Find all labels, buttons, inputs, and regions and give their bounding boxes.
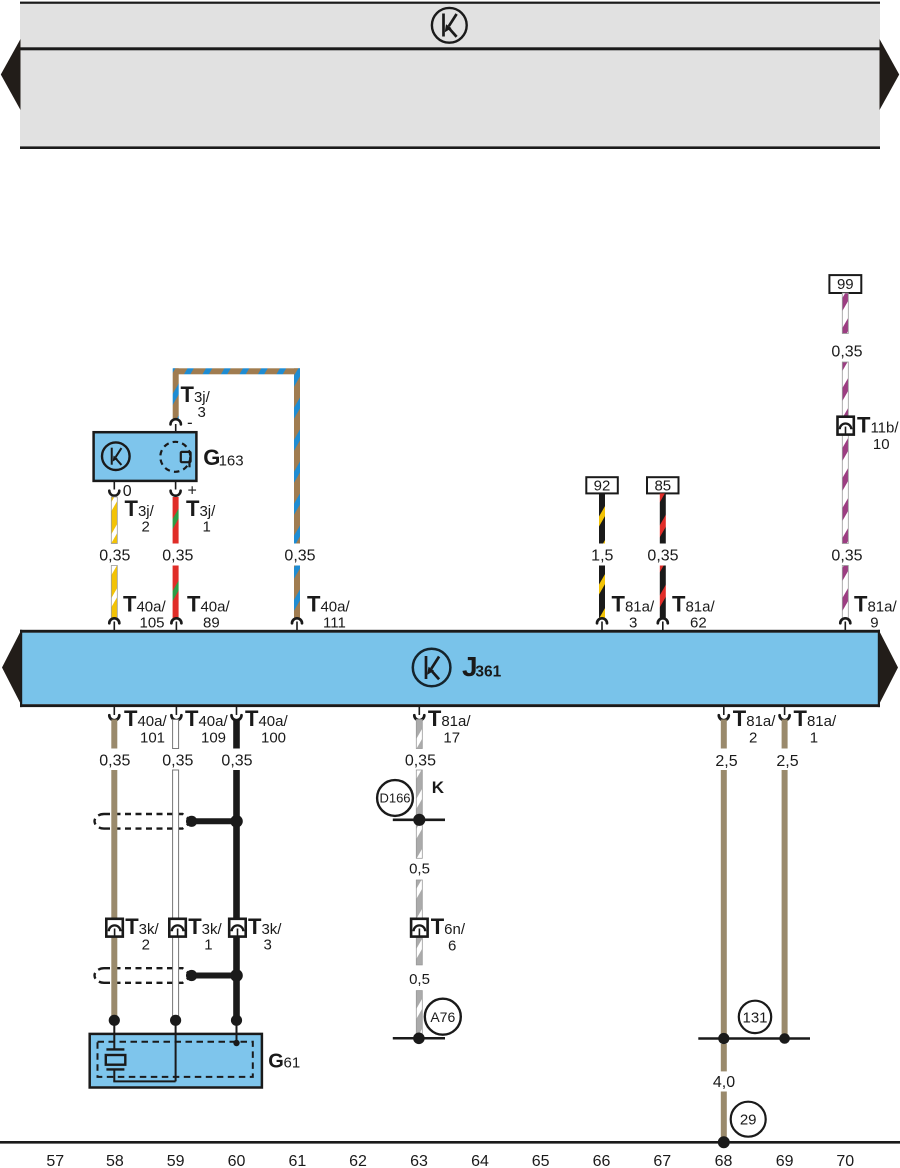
- svg-text:58: 58: [106, 1153, 124, 1168]
- svg-text:9: 9: [870, 615, 878, 632]
- junction D166 crossbar and dot: [393, 814, 445, 826]
- wire T40a/100 black: [233, 720, 240, 1021]
- svg-text:T3k/: T3k/: [188, 914, 222, 939]
- svg-text:T3j/: T3j/: [186, 496, 216, 521]
- connector label T40a/109: [185, 706, 228, 747]
- wire T81a/1 brown: [782, 720, 788, 1039]
- connector pin G163 top T3j/3: [171, 419, 181, 432]
- terminal box 99: [829, 275, 861, 293]
- connector label T81a/17: [428, 706, 471, 747]
- node D166: [377, 780, 413, 816]
- terminal box 85: [647, 477, 679, 494]
- in-harness connector T11b/10: [838, 413, 900, 454]
- svg-text:59: 59: [167, 1153, 185, 1168]
- svg-text:T3k/: T3k/: [248, 914, 282, 939]
- svg-text:2: 2: [749, 730, 757, 747]
- svg-text:1,5: 1,5: [591, 548, 613, 565]
- svg-text:T3j/: T3j/: [181, 382, 211, 407]
- svg-text:0,5: 0,5: [409, 971, 430, 988]
- connector label T40a/89: [187, 592, 230, 632]
- component label G163: [203, 445, 243, 470]
- svg-text:63: 63: [410, 1153, 428, 1168]
- svg-text:70: 70: [836, 1153, 854, 1168]
- wire T81a/62 black/red: [660, 493, 666, 618]
- component label J361: [462, 651, 502, 682]
- connector label T3j/1: [186, 496, 216, 536]
- svg-text:T11b/: T11b/: [857, 413, 899, 438]
- wire T81a/17 grey/white: [416, 720, 422, 1039]
- svg-text:100: 100: [261, 730, 286, 747]
- connector label T3j/3: [181, 382, 211, 421]
- svg-text:0,35: 0,35: [99, 548, 130, 565]
- svg-text:T81a/: T81a/: [428, 706, 471, 731]
- svg-text:3: 3: [264, 936, 272, 953]
- svg-text:3: 3: [198, 404, 206, 421]
- svg-text:89: 89: [203, 615, 220, 632]
- svg-text:-: -: [187, 413, 193, 432]
- svg-text:2,5: 2,5: [715, 753, 737, 770]
- svg-text:131: 131: [742, 1009, 767, 1026]
- svg-text:T40a/: T40a/: [307, 592, 350, 617]
- svg-text:T81a/: T81a/: [733, 706, 776, 731]
- connector label T40a/100: [245, 706, 288, 747]
- junction A76 crossbar and dot: [393, 1033, 445, 1045]
- ground point 29: [731, 1102, 766, 1137]
- shielding dashed screen (upper): [95, 814, 192, 829]
- svg-text:57: 57: [46, 1153, 64, 1168]
- wire T40a/109 white: [173, 720, 179, 1021]
- component label G61: [268, 1051, 300, 1073]
- svg-text:29: 29: [740, 1112, 757, 1129]
- svg-text:64: 64: [471, 1153, 489, 1168]
- svg-text:62: 62: [349, 1153, 367, 1168]
- svg-text:0,35: 0,35: [831, 344, 862, 361]
- svg-text:T6n/: T6n/: [431, 914, 466, 939]
- bus-top connector arcs: [109, 618, 850, 631]
- svg-text:T3j/: T3j/: [125, 496, 155, 521]
- svg-text:105: 105: [140, 615, 165, 632]
- shield drain junction (lower): [186, 969, 243, 982]
- in-harness connector T3k/1: [169, 914, 222, 954]
- shield drain junction (upper): [186, 815, 243, 828]
- svg-text:A76: A76: [430, 1009, 455, 1025]
- svg-text:K: K: [432, 778, 445, 797]
- svg-text:G: G: [268, 1051, 284, 1073]
- knock sensor control unit G163: [94, 432, 197, 481]
- svg-text:2,5: 2,5: [776, 753, 798, 770]
- svg-text:T40a/: T40a/: [123, 592, 166, 617]
- wire T3j/3 to T40a/111 brown/blue loop: [173, 368, 300, 618]
- svg-text:1: 1: [810, 730, 818, 747]
- connector label T3j/2: [125, 496, 155, 536]
- wire T81a/3 black/yellow: [599, 493, 605, 618]
- wire T81a/9 lilac/white: [842, 293, 848, 618]
- svg-text:0,35: 0,35: [99, 752, 130, 769]
- svg-text:1: 1: [204, 936, 212, 953]
- connector label T81a/1: [794, 706, 837, 747]
- svg-text:10: 10: [873, 436, 890, 453]
- svg-text:3: 3: [629, 615, 637, 632]
- connector label T81a/9: [854, 592, 897, 632]
- connector label T40a/101: [124, 706, 167, 747]
- svg-text:1: 1: [203, 519, 211, 536]
- svg-text:0,35: 0,35: [221, 752, 252, 769]
- current track numbers 57-70: [46, 1153, 854, 1168]
- svg-text:0,35: 0,35: [284, 548, 315, 565]
- knock sensor G61: [90, 1020, 262, 1087]
- svg-text:2: 2: [142, 936, 150, 953]
- svg-text:101: 101: [140, 730, 165, 747]
- wire T40a/101 brown: [111, 720, 117, 1021]
- connector pin G163 bottom T3j/2: [109, 481, 119, 496]
- svg-text:68: 68: [715, 1153, 733, 1168]
- connector label T40a/105: [123, 592, 166, 632]
- wire T3j/2 yellow/white: [111, 497, 117, 618]
- svg-text:0,35: 0,35: [162, 752, 193, 769]
- svg-text:163: 163: [219, 452, 244, 469]
- in-harness connector T3k/3: [229, 914, 282, 954]
- junction dots above G61: [109, 1015, 242, 1026]
- svg-text:65: 65: [532, 1153, 550, 1168]
- connector label T81a/2: [733, 706, 776, 747]
- svg-text:T81a/: T81a/: [612, 592, 655, 617]
- svg-text:T40a/: T40a/: [187, 592, 230, 617]
- svg-text:T40a/: T40a/: [245, 706, 288, 731]
- svg-text:0,35: 0,35: [647, 548, 678, 565]
- connector label T81a/62: [672, 592, 715, 632]
- svg-text:61: 61: [284, 1055, 301, 1072]
- ground point 131: [698, 1001, 810, 1044]
- K symbol (bus J361): [413, 649, 451, 687]
- svg-text:111: 111: [323, 615, 346, 632]
- shielding dashed screen (lower): [95, 968, 192, 983]
- connector label T81a/3: [612, 592, 655, 632]
- connector label T40a/111: [307, 592, 350, 632]
- svg-text:T40a/: T40a/: [124, 706, 167, 731]
- svg-text:0,35: 0,35: [831, 548, 862, 565]
- terminal box 92: [586, 477, 618, 494]
- connector pin G163 bottom T3j/1: [171, 481, 181, 496]
- wire T81a/2 brown: [721, 720, 727, 1143]
- in-harness connector T6n/6: [411, 914, 466, 954]
- svg-text:6: 6: [448, 937, 456, 954]
- control unit bus J361: [20, 630, 880, 707]
- in-harness connector T3k/2: [106, 914, 159, 954]
- left continuation arrow (top band): [1, 39, 21, 110]
- svg-text:2: 2: [142, 519, 150, 536]
- left continuation arrow (bus): [2, 632, 21, 704]
- svg-text:361: 361: [475, 664, 501, 681]
- svg-text:D166: D166: [379, 791, 410, 806]
- interior-light gray band: [20, 2, 880, 149]
- svg-text:4,0: 4,0: [713, 1074, 735, 1091]
- svg-text:T3k/: T3k/: [125, 914, 159, 939]
- bus-bottom connector pins: [109, 707, 789, 721]
- svg-text:0,5: 0,5: [409, 861, 430, 878]
- svg-text:0,35: 0,35: [405, 752, 436, 769]
- right continuation arrow (bus): [880, 632, 899, 704]
- svg-text:92: 92: [594, 478, 611, 495]
- svg-text:66: 66: [593, 1153, 611, 1168]
- svg-text:17: 17: [443, 730, 460, 747]
- svg-text:T40a/: T40a/: [185, 706, 228, 731]
- svg-text:T81a/: T81a/: [672, 592, 715, 617]
- svg-text:99: 99: [837, 276, 854, 293]
- svg-text:62: 62: [690, 615, 707, 632]
- right continuation arrow (top band): [880, 39, 900, 110]
- wire T3j/1 red/green: [173, 497, 179, 618]
- node A76: [425, 999, 461, 1035]
- svg-text:T81a/: T81a/: [794, 706, 837, 731]
- svg-text:60: 60: [228, 1153, 246, 1168]
- current track base line: [0, 1136, 900, 1148]
- svg-text:61: 61: [289, 1153, 307, 1168]
- svg-text:T81a/: T81a/: [854, 592, 897, 617]
- svg-text:0,35: 0,35: [162, 548, 193, 565]
- svg-text:109: 109: [201, 730, 226, 747]
- svg-text:67: 67: [653, 1153, 671, 1168]
- K symbol (top band): [432, 8, 467, 43]
- svg-text:85: 85: [654, 478, 671, 495]
- svg-text:69: 69: [776, 1153, 794, 1168]
